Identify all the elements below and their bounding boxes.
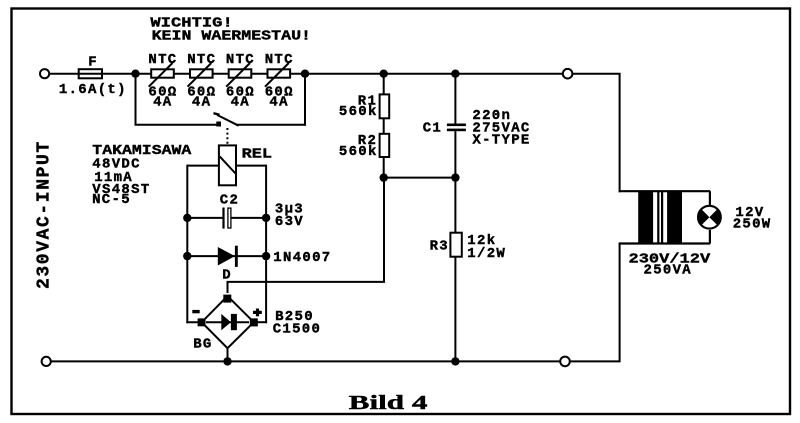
right rail wire (265, 165, 267, 324)
junction R3 bottom (451, 357, 459, 365)
resistor R2 (380, 134, 390, 157)
wire top to connector (455, 73, 562, 75)
svg-text:63V: 63V (275, 214, 304, 230)
svg-text:C1: C1 (423, 120, 442, 136)
svg-text:NTC: NTC (148, 52, 177, 68)
NTC thermistor 1 (149, 63, 174, 87)
svg-text:4A: 4A (153, 94, 172, 110)
junction D left (183, 252, 191, 260)
svg-text:REL: REL (242, 146, 272, 162)
relay contact blade tick (214, 113, 220, 115)
junction C1 bottom (451, 173, 459, 181)
svg-text:NTC: NTC (265, 52, 294, 68)
NTC thermistor 2 (188, 63, 213, 87)
svg-text:Bild 4: Bild 4 (349, 392, 428, 414)
svg-text:1N4007: 1N4007 (273, 250, 331, 266)
wire coil to right rail (236, 165, 266, 167)
connector bottom (560, 357, 570, 367)
svg-text:NTC: NTC (187, 52, 216, 68)
transformer secondary winding (667, 192, 682, 244)
svg-text:560k: 560k (339, 104, 378, 120)
NTC thermistor 3 (226, 63, 251, 87)
bottom terminal input (42, 357, 51, 366)
transformer primary winding (638, 192, 653, 244)
svg-text:250W: 250W (733, 217, 772, 233)
svg-text:C2: C2 (220, 192, 239, 208)
svg-text:250VA: 250VA (644, 263, 693, 279)
svg-text:1.6A(t): 1.6A(t) (59, 82, 127, 98)
svg-text:4A: 4A (269, 94, 288, 110)
bypass wire left horizontal (135, 124, 220, 126)
svg-text:KEIN WAERMESTAU!: KEIN WAERMESTAU! (152, 28, 311, 44)
svg-text:NC-5: NC-5 (92, 192, 131, 208)
resistor R1 (380, 94, 390, 118)
capacitor C2 (187, 208, 266, 229)
terminal input top-left (40, 69, 49, 78)
svg-text:C1500: C1500 (273, 321, 322, 337)
wire node to bridge top (228, 178, 385, 293)
wire top R1 to C1 branch (384, 73, 456, 75)
wire bridge bottom to rail (227, 348, 229, 361)
fuse F (79, 69, 102, 78)
wire connector to transformer top (572, 74, 619, 193)
bridge rectifier BG (198, 295, 258, 349)
svg-text:X-TYPE: X-TYPE (472, 132, 530, 148)
bottom rail wire (51, 360, 560, 362)
transformer core (658, 192, 662, 244)
NTC thermistor 4 (265, 63, 290, 87)
svg-text:4A: 4A (192, 94, 211, 110)
svg-text:4A: 4A (231, 94, 250, 110)
wire left rail to coil (187, 165, 219, 167)
svg-text:1/2W: 1/2W (467, 246, 506, 262)
resistor R3 (450, 233, 461, 257)
wire R2 bottom to C1 bottom (384, 177, 456, 179)
svg-text:R3: R3 (430, 238, 449, 254)
junction C2 right (262, 214, 270, 222)
wire terminal to fuse (50, 73, 79, 75)
junction R1 top (380, 70, 388, 78)
svg-text:230VAC-INPUT: 230VAC-INPUT (35, 140, 55, 289)
svg-text:NTC: NTC (226, 52, 255, 68)
wire connector to transformer bottom (570, 244, 620, 362)
relay contact fixed nub (216, 122, 221, 127)
junction C1 top (451, 70, 459, 78)
bypass wire right vertical (304, 74, 306, 126)
junction node right of NTC chain (301, 70, 309, 78)
transformer primary top wire (619, 190, 711, 192)
connector top (563, 69, 573, 79)
wire C1 bottom to R3 (454, 178, 456, 362)
label minus (192, 310, 199, 313)
wire bridge left to rail (186, 321, 203, 323)
relay coil REL (219, 145, 236, 185)
junction bridge bottom (223, 357, 231, 365)
relay contact blade (217, 115, 238, 126)
junction D right (262, 252, 270, 260)
lamp 12V 250W (698, 206, 722, 229)
bypass wire right horizontal (236, 124, 306, 126)
transformer bottom wire (619, 242, 711, 244)
capacitor C1 (447, 74, 466, 178)
wire bridge right to rail (252, 321, 267, 323)
wire secondary top to lamp (709, 191, 711, 205)
svg-text:560k: 560k (339, 144, 378, 160)
junction node left of NTC chain (131, 70, 139, 78)
junction C2 left (183, 214, 191, 222)
wire fuse to node (102, 73, 136, 75)
wire top to R1 branch (305, 73, 384, 75)
wire NTC chain (136, 73, 306, 75)
junction R2 bottom (380, 173, 388, 181)
wire R1 R2 chain (383, 74, 385, 178)
bypass wire left vertical (135, 74, 137, 125)
wire secondary bottom to lamp (709, 230, 711, 244)
relay actuation dotted link (226, 128, 228, 144)
label plus (253, 309, 262, 317)
svg-text:F: F (88, 55, 98, 71)
diode D 1N4007 (187, 246, 266, 267)
left rail wire (186, 165, 188, 324)
svg-text:BG: BG (193, 336, 212, 352)
